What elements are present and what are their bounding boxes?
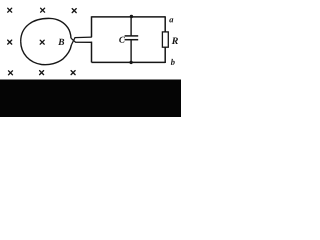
label C (119, 37, 125, 43)
circuit rectangle: left edge upper segment (91, 16, 93, 37)
field mark x row2 col1 (8, 40, 12, 44)
capacitor C1 upper plate (125, 35, 139, 37)
resistor R box (162, 32, 168, 47)
junction dot top (130, 15, 133, 18)
right edge lower wire (resistor to b) (164, 47, 166, 63)
black bar at bottom (0, 80, 181, 118)
terminal label a (169, 18, 173, 22)
field mark x row1 col1 (8, 8, 12, 12)
field mark x row3 col3 (71, 71, 75, 75)
label B (58, 39, 64, 45)
field mark x row1 col3 (72, 9, 76, 13)
circular loop (lower half, ends at lead crossing) (21, 41, 72, 64)
label R (172, 37, 178, 44)
field mark x row2 col2 (circle centre) (40, 40, 44, 44)
circular loop (upper half, ends at lead crossing) (21, 18, 71, 41)
capacitor C1 bottom lead (130, 40, 132, 63)
capacitor C1 top lead (130, 17, 132, 36)
terminal label b (171, 59, 175, 65)
circuit rectangle: left edge lower segment (91, 42, 93, 63)
field mark x row3 col1 (9, 71, 13, 75)
circuit rectangle: top wire (92, 16, 166, 18)
field mark x row3 col2 (40, 71, 44, 75)
field mark x row1 col2 (41, 8, 45, 12)
circuit rectangle: bottom wire (92, 61, 166, 63)
right edge upper wire (a to resistor) (164, 16, 166, 32)
capacitor C1 lower plate (125, 39, 139, 41)
loop lead (upper arc end crossing to lower wire) (71, 38, 92, 42)
loop lead (lower arc end crossing to upper wire) (71, 37, 91, 45)
junction dot bottom (129, 61, 132, 64)
